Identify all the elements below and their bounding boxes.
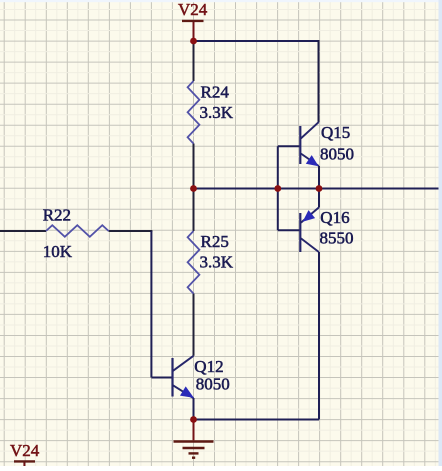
svg-text:10K: 10K (43, 242, 73, 261)
svg-text:Q15: Q15 (321, 123, 350, 142)
svg-text:R24: R24 (201, 83, 230, 102)
svg-text:8550: 8550 (320, 228, 354, 247)
svg-text:3.3K: 3.3K (200, 103, 234, 122)
svg-text:Q12: Q12 (194, 357, 223, 376)
svg-text:R22: R22 (43, 206, 71, 225)
svg-text:8050: 8050 (320, 144, 354, 163)
svg-text:3.3K: 3.3K (200, 252, 234, 271)
svg-text:R25: R25 (201, 232, 229, 251)
svg-text:8050: 8050 (196, 375, 230, 394)
svg-text:Q16: Q16 (320, 208, 349, 227)
svg-text:V24: V24 (10, 441, 40, 460)
svg-text:V24: V24 (178, 0, 208, 19)
